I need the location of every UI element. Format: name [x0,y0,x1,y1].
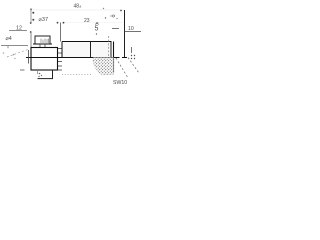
svg-text:SW10: SW10 [113,80,127,86]
svg-text:⌀4: ⌀4 [6,36,12,42]
svg-text:23: 23 [84,18,90,24]
svg-text:5: 5 [95,26,99,33]
svg-text:⌀37: ⌀37 [39,17,49,23]
svg-text:10: 10 [128,26,134,32]
